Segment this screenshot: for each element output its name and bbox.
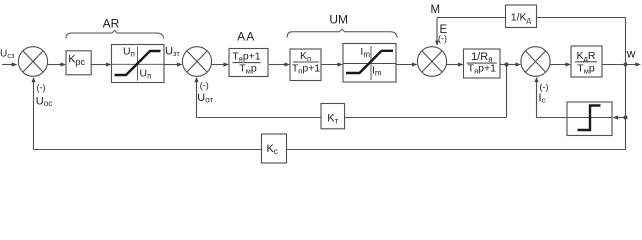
wire output vertical tap — [625, 18, 627, 150]
wire summing3 to 1/Rя block — [446, 62, 463, 66]
brace UM — [287, 29, 397, 38]
wire relay output to summing4 — [537, 117, 568, 119]
wire limiter to summing2, node Uзт — [164, 62, 183, 66]
svg-text:AA: AA — [237, 30, 255, 44]
block saturation limiter Uп — [112, 45, 165, 83]
svg-text:(-): (-) — [540, 82, 549, 92]
wire Kп to saturation Im — [321, 62, 344, 66]
svg-text:Im: Im — [360, 46, 370, 59]
node relay tap junction — [624, 116, 628, 120]
svg-text:AR: AR — [103, 17, 120, 31]
wire top feedback horizontal — [437, 17, 626, 19]
block Kп/(Тпp+1) — [290, 49, 321, 81]
svg-text:Kп: Kп — [300, 50, 311, 63]
wire AA to Kп block — [269, 62, 290, 66]
svg-text:w: w — [626, 47, 636, 61]
block (1/Rя)/(Тяp+1) armature — [464, 49, 501, 78]
brace AR — [66, 30, 164, 38]
block 1/Kд speed feedback — [506, 5, 537, 28]
wire saturation to summing3 — [396, 62, 418, 66]
svg-text:M: M — [431, 4, 441, 16]
svg-text:(-): (-) — [200, 80, 209, 90]
block AA transfer (Тяp+1)/(Тмp) — [229, 49, 268, 77]
svg-text:Im: Im — [372, 64, 382, 77]
svg-text:Tяp+1: Tяp+1 — [468, 62, 496, 75]
wire 1/Rя to summing4 — [500, 62, 521, 66]
wire current feedback horizontal left part — [197, 117, 322, 119]
svg-text:Uп: Uп — [140, 68, 152, 81]
wire Iс vertical into summing4 — [534, 77, 538, 118]
summing junction 3 — [417, 47, 446, 77]
svg-text:Kрс: Kрс — [68, 54, 85, 67]
svg-text:Tмp: Tмp — [577, 62, 595, 75]
node output junction — [624, 63, 628, 67]
wire summing4 to KдR block — [550, 62, 571, 66]
block relay (step nonlinearity) — [567, 102, 612, 136]
wire Uос vertical into summing1 — [31, 77, 35, 150]
wire speed feedback bottom horizontal — [34, 149, 626, 151]
svg-text:Iс: Iс — [539, 92, 546, 104]
svg-text:(-): (-) — [37, 83, 46, 93]
block Kрс (regulator) — [66, 51, 91, 75]
summing junction 1 — [18, 47, 47, 77]
wire summing2 to AA block — [211, 62, 229, 66]
block Kс speed sensor — [262, 134, 287, 163]
svg-text:Uот: Uот — [197, 92, 213, 105]
wire Kрс to limiter — [91, 62, 112, 66]
svg-text:Uзт: Uзт — [165, 45, 180, 58]
wire M vertical into summing3 — [435, 18, 439, 47]
wire current feedback Kт: down from tap — [506, 65, 508, 118]
wire output w — [602, 62, 641, 66]
wire Uот vertical into summing2 — [194, 77, 198, 118]
block saturation limiter Im — [343, 44, 396, 83]
wire relay input from tap — [613, 115, 626, 119]
svg-text:Uсз: Uсз — [0, 48, 15, 60]
block Kт current sensor — [321, 104, 345, 129]
block KдR/(Тмp) motor — [571, 46, 602, 77]
node junction current tap — [505, 63, 509, 67]
svg-text:Tпp+1: Tпp+1 — [292, 63, 320, 76]
wire input Uсз — [2, 62, 17, 66]
svg-text:KдR: KдR — [577, 50, 596, 63]
svg-text:Tмp: Tмp — [239, 63, 257, 76]
wire summing1 to Kрс — [47, 62, 66, 66]
svg-text:UM: UM — [329, 13, 348, 27]
summing junction 4 — [521, 47, 550, 77]
svg-text:Uос: Uос — [36, 95, 52, 108]
svg-text:(-): (-) — [438, 34, 447, 44]
summing junction 2 — [182, 47, 211, 77]
wire current feedback horizontal right part — [345, 117, 507, 119]
svg-text:Uп: Uп — [123, 45, 135, 58]
